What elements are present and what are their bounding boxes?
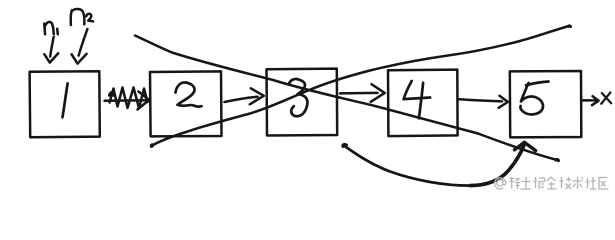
shu: [573, 177, 584, 189]
value 5 in box 5: [520, 82, 548, 115]
arrow n1 (down into box 1): [44, 37, 58, 63]
she: [586, 177, 597, 189]
arrow box3 to box4: [340, 84, 385, 102]
label n2: [71, 9, 93, 25]
xi: [509, 177, 520, 189]
arrow box2 to box3: [225, 88, 264, 104]
node box 1: [30, 71, 100, 137]
null marker x: [601, 92, 611, 103]
node box 4: [388, 70, 458, 137]
curved arrow from below box 2 to box 5: [343, 142, 536, 185]
qu: [599, 178, 609, 190]
value 2 in box 2: [176, 82, 202, 106]
ji: [560, 177, 572, 189]
broken link squiggle between box 1 and box 2: [105, 88, 151, 110]
end blob of descending line: [556, 160, 559, 161]
long cross-out line (descending, upper-left to lower-right): [135, 36, 557, 160]
arrow box4 to box5: [460, 96, 508, 108]
node box 2: [150, 71, 222, 136]
arrow n2 (down into box 1): [72, 29, 88, 64]
jin: [547, 177, 557, 189]
long cross-out line (ascending, lower-left to upper-right): [151, 26, 570, 146]
value 3 in box 3: [289, 79, 308, 116]
node box 3: [267, 69, 338, 136]
label n1: [44, 22, 58, 34]
watermark @ juejin community: [495, 177, 609, 189]
value 4 in box 4: [404, 81, 431, 118]
tu: [521, 177, 532, 189]
value 1 in box 1: [63, 83, 68, 117]
node box 5: [510, 71, 582, 137]
@: [495, 178, 506, 189]
arrow box5 to null: [583, 96, 599, 105]
jue: [534, 177, 545, 189]
